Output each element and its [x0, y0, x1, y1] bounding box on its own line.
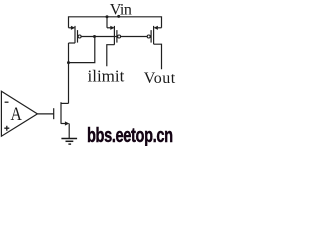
wire M2 drain down to ilimit label: [107, 45, 115, 67]
transistor M1 (diode-connected PMOS, gate on right): [69, 26, 78, 43]
op-amp plus input mark: [4, 126, 9, 131]
svg-text:Vout: Vout: [144, 70, 176, 87]
svg-text:Vin: Vin: [110, 2, 132, 19]
wire M3 drain down to Vout label: [154, 44, 162, 69]
svg-text:ilimit: ilimit: [88, 67, 125, 86]
wire op-amp output to NMOS gate: [37, 113, 53, 115]
watermark bbs.eetop.cn: [87, 127, 189, 146]
transistor M4 (NMOS, gate on left): [54, 102, 69, 124]
svg-text:A: A: [11, 104, 23, 125]
node Vin label dot on rail: [117, 15, 120, 18]
wire M2 source drop from rail: [106, 17, 108, 28]
wire gate net from M1 bubble through M2 to M3 bubble: [81, 36, 148, 38]
transistor M2 (PMOS mirror, gate on right): [107, 26, 117, 45]
transistor M3 (PMOS pass device, gate on left, mirrored): [151, 26, 161, 44]
wire M1 drain vertical down to NMOS drain: [68, 43, 70, 103]
node sense junction dot (M1 drain column): [67, 61, 70, 64]
wire diode-connect branch: sense node to gate line: [69, 37, 95, 63]
node gate-net junction dot: [93, 35, 96, 38]
op-amp minus input mark: [5, 101, 9, 103]
ground: [61, 139, 77, 145]
wire Vin top rail: [69, 17, 162, 28]
op-amp U1: [1, 91, 37, 136]
node M2 source rail junction dot: [106, 15, 109, 18]
wire NMOS source down to ground: [68, 124, 70, 139]
